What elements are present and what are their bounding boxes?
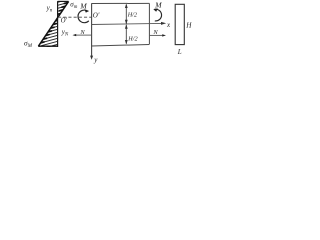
svg-text:H/2: H/2 bbox=[127, 12, 137, 19]
svg-text:σM: σM bbox=[24, 38, 33, 49]
svg-text:N: N bbox=[79, 29, 85, 36]
svg-text:σm: σm bbox=[70, 1, 77, 11]
svg-text:H/2: H/2 bbox=[127, 36, 137, 43]
svg-text:M: M bbox=[79, 2, 87, 11]
svg-text:M: M bbox=[154, 1, 162, 10]
svg-text:O′: O′ bbox=[61, 17, 68, 24]
svg-text:O′: O′ bbox=[93, 11, 100, 19]
svg-text:y: y bbox=[93, 56, 98, 64]
svg-text:L: L bbox=[177, 48, 182, 56]
svg-text:N: N bbox=[152, 29, 158, 36]
svg-text:H: H bbox=[185, 21, 192, 29]
svg-text:yN: yN bbox=[61, 28, 69, 38]
svg-text:yn: yn bbox=[46, 4, 53, 14]
svg-text:x: x bbox=[166, 21, 171, 29]
